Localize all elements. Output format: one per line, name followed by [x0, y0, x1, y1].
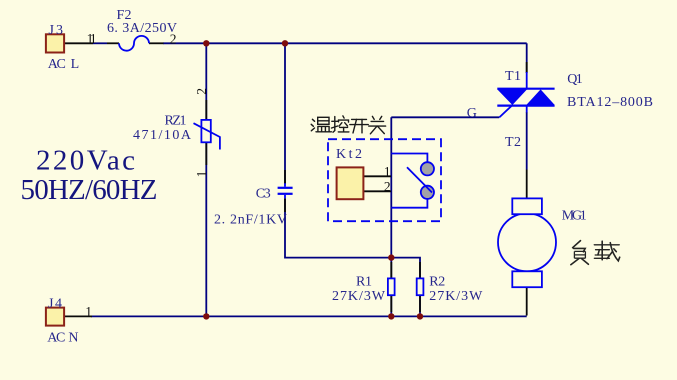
svg-text:L: L: [71, 57, 80, 72]
svg-text:T2: T2: [505, 135, 521, 150]
svg-text:2: 2: [194, 88, 209, 95]
svg-text:J4: J4: [48, 296, 62, 311]
svg-text:6. 3A/250V: 6. 3A/250V: [107, 21, 177, 36]
svg-text:J3: J3: [49, 23, 64, 38]
svg-text:BTA12–800B: BTA12–800B: [567, 95, 653, 110]
svg-text:27K/3W: 27K/3W: [429, 289, 483, 304]
svg-text:AC: AC: [47, 330, 65, 345]
svg-text:1: 1: [384, 164, 391, 179]
svg-text:Kt2: Kt2: [336, 147, 362, 162]
svg-text:1: 1: [194, 171, 209, 178]
svg-text:MG1: MG1: [562, 209, 587, 224]
svg-text:2: 2: [170, 32, 177, 47]
svg-text:50HZ/60HZ: 50HZ/60HZ: [21, 174, 158, 206]
svg-text:G: G: [467, 106, 477, 121]
svg-text:1: 1: [85, 304, 92, 319]
svg-text:27K/3W: 27K/3W: [332, 289, 386, 304]
svg-text:RZ1: RZ1: [165, 114, 187, 129]
svg-text:R1: R1: [356, 274, 372, 289]
svg-text:2. 2nF/1KV: 2. 2nF/1KV: [214, 212, 287, 227]
svg-text:2: 2: [384, 179, 391, 194]
svg-text:AC: AC: [48, 57, 66, 72]
svg-text:N: N: [68, 330, 78, 345]
svg-text:Q1: Q1: [567, 72, 583, 87]
svg-text:11: 11: [87, 31, 97, 46]
svg-text:C3: C3: [256, 186, 271, 201]
svg-text:T1: T1: [505, 69, 521, 84]
svg-text:R2: R2: [429, 274, 445, 289]
